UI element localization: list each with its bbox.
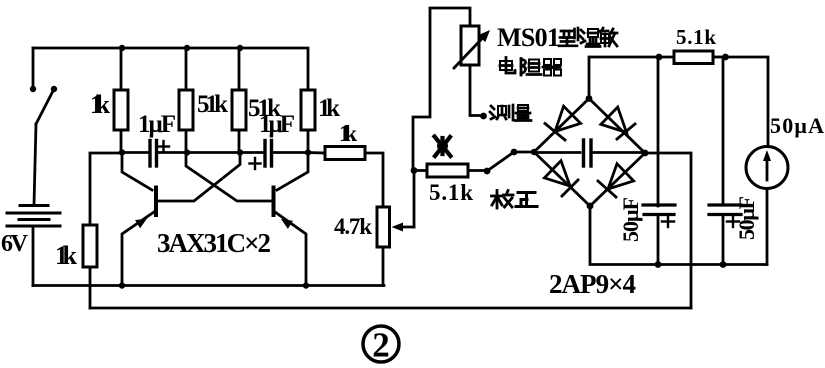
node top R3 (237, 45, 243, 51)
resistor R7 5.1k (427, 164, 486, 177)
wire pole to bridge left vertex (514, 151, 534, 154)
svg-text:1μF: 1μF (138, 111, 176, 138)
node calibrate contact (484, 168, 491, 175)
glyph 测 (490, 105, 513, 120)
diode D3 (544, 161, 578, 196)
glyph 正 (516, 193, 537, 207)
wire C5 to rail (722, 215, 725, 265)
ground rail (emitter rail) (33, 284, 384, 287)
wire C1 to node B (157, 151, 188, 154)
wire node E to R7 (413, 169, 427, 172)
wire bridge bottom to rail (590, 206, 767, 265)
wire meter bottom (766, 190, 769, 265)
diode D4 (598, 164, 634, 197)
transistor Q1 (122, 153, 240, 286)
svg-text:50μA: 50μA (770, 113, 824, 138)
star symbol (calibrate mark) (435, 137, 451, 157)
meter M 50uA (746, 147, 788, 189)
wire node D to R5 (308, 151, 325, 154)
polarity + C2 (250, 158, 261, 169)
diode D1 (545, 106, 581, 140)
wire right vertex to return (645, 153, 691, 308)
node bridge bottom vertex (587, 203, 594, 210)
svg-text:2: 2 (372, 326, 390, 365)
node top R2 (184, 45, 190, 51)
wire C4 to rail (657, 215, 660, 265)
node switch pole (511, 149, 518, 156)
glyph 阻 (521, 59, 541, 76)
svg-text:6V: 6V (1, 231, 29, 257)
resistor R1 1k (114, 48, 128, 153)
node B base-coupling (184, 149, 190, 155)
switch arm S2 (487, 152, 514, 171)
svg-text:4.7k: 4.7k (334, 214, 372, 239)
potentiometer RP 4.7k (377, 207, 414, 286)
resistor R5 1k (325, 147, 383, 208)
bridge edge left-top (534, 99, 589, 153)
svg-text:1k: 1k (339, 121, 357, 146)
wire switch upper lead (32, 48, 35, 89)
resistor R8 5.1k (659, 51, 726, 64)
resistor R4 1k (301, 90, 315, 153)
svg-text:1k: 1k (90, 90, 111, 119)
wire bridge cap left (534, 151, 580, 154)
node D collector Q2 (305, 149, 311, 155)
node emitter Q1 junction (119, 282, 125, 288)
bridge edge left-bottom (534, 152, 590, 206)
svg-text:5.1k: 5.1k (676, 25, 716, 49)
resistor R6 1k (83, 225, 97, 308)
node C base-coupling (237, 149, 243, 155)
svg-text:50μF: 50μF (734, 196, 759, 240)
node bridge right vertex (642, 150, 649, 157)
svg-text:1k: 1k (318, 95, 340, 122)
wire switch to battery (34, 124, 36, 205)
node bridge top vertex (586, 95, 593, 102)
battery B1 6V (7, 206, 60, 227)
wire R8 to meter top (726, 57, 769, 146)
node emitter Q2 junction (303, 282, 309, 288)
bridge edge top-right (589, 99, 645, 154)
svg-text:2AP9×4: 2AP9×4 (549, 269, 636, 299)
node R8 right (722, 54, 729, 61)
capacitor C1 1uF (150, 141, 157, 167)
switch S1 (30, 86, 57, 124)
capacitor C2 1uF (265, 141, 272, 167)
wire bridge top to R8 row (589, 57, 659, 99)
svg-text:1k: 1k (55, 241, 78, 270)
polarity + C5 (727, 216, 739, 227)
polarity + C4 (662, 216, 674, 227)
transistor Q2 (186, 153, 308, 286)
wire top rail from switch to R4 (33, 48, 308, 90)
node A collector Q1 (119, 149, 125, 155)
diode D2 (601, 107, 635, 139)
capacitor C3 (584, 140, 592, 166)
node C5 rail junction (720, 261, 727, 268)
node E junction (411, 167, 418, 174)
wire node A to C1 (122, 151, 150, 154)
resistor R2 51k (179, 48, 193, 153)
wire node B to node C (187, 151, 240, 154)
resistor R3 51k (232, 48, 246, 153)
node R8 left (656, 54, 663, 61)
polarity + C1 (158, 141, 169, 152)
glyph 器 (543, 59, 561, 76)
svg-text:50μF: 50μF (618, 197, 643, 242)
glyph 湿 (580, 29, 600, 47)
svg-text:MS01: MS01 (497, 23, 560, 52)
wire bridge cap right (591, 151, 645, 154)
figure number circle 2 (363, 326, 399, 365)
glyph 敏 (600, 28, 617, 46)
node measure contact (480, 113, 487, 120)
wire C5 riser (722, 57, 725, 205)
wire MS01 branch left loop (413, 8, 470, 171)
wire battery to ground rail (32, 226, 35, 286)
humidity resistor MS01 (454, 26, 490, 116)
wire node C to C2 (240, 151, 265, 154)
glyph 校 (492, 191, 514, 209)
capacitor C5 50uF (709, 205, 741, 215)
bridge edge bottom-right (590, 153, 645, 206)
wire R6 top to node A (90, 153, 122, 225)
node bridge left vertex (531, 149, 537, 155)
capacitor C4 50uF (643, 205, 675, 215)
wire wiper riser (413, 171, 416, 228)
node C4 rail junction (655, 261, 662, 268)
glyph 型 (559, 28, 578, 46)
svg-text:51k: 51k (197, 91, 228, 118)
bottom return rail (90, 307, 691, 310)
svg-text:5.1k: 5.1k (429, 180, 473, 205)
svg-text:1μF: 1μF (259, 111, 295, 138)
svg-text:3AX31C×2: 3AX31C×2 (157, 228, 271, 258)
wire C2 to node D (272, 151, 309, 154)
glyph 电 (500, 58, 515, 74)
wire C4 riser (657, 57, 660, 206)
node top R1 (119, 45, 125, 51)
glyph 量 (515, 105, 531, 121)
